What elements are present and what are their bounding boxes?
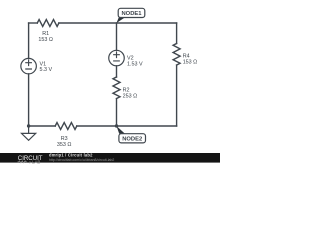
svg-text:153 Ω: 153 Ω xyxy=(38,37,53,43)
svg-text:R1: R1 xyxy=(42,31,49,37)
svg-text:1.53 V: 1.53 V xyxy=(127,62,143,68)
wire middle vertical upper xyxy=(116,23,118,50)
wire left vertical lower xyxy=(28,74,30,126)
wire bottom from ground junction to R3 xyxy=(29,125,56,127)
svg-text:dmrip1 / Circuit lab2: dmrip1 / Circuit lab2 xyxy=(49,152,93,157)
svg-text:http://circuitlab.com/c/u4bban: http://circuitlab.com/c/u4bban8/circuit-… xyxy=(49,158,114,162)
svg-text:▸LAB: ▸LAB xyxy=(30,159,41,164)
wire left vertical upper xyxy=(28,23,30,58)
footer logo zigzag xyxy=(18,161,28,163)
resistor R2 xyxy=(113,77,120,99)
voltage source V2 xyxy=(109,50,125,66)
wire right vertical upper xyxy=(176,23,178,44)
node junction dot NODE2 xyxy=(115,124,118,127)
ground xyxy=(22,126,36,140)
resistor R3 xyxy=(55,123,77,130)
wire bottom from R3 to right corner xyxy=(77,125,177,127)
footer bar xyxy=(0,153,220,163)
svg-text:253 Ω: 253 Ω xyxy=(123,94,138,100)
node NODE2 pointer xyxy=(117,126,126,134)
wire top-left lead xyxy=(29,22,38,24)
wire from R2 to bottom xyxy=(116,99,118,126)
voltage source V1 xyxy=(21,58,36,74)
svg-text:353 Ω: 353 Ω xyxy=(57,142,72,148)
wire right vertical lower xyxy=(176,65,178,126)
wire between V2 and R2 xyxy=(116,66,118,77)
node NODE1 pointer xyxy=(117,17,126,23)
svg-text:5.3 V: 5.3 V xyxy=(40,67,53,73)
resistor R1 xyxy=(37,20,59,27)
node NODE1 box xyxy=(118,8,145,17)
svg-text:R3: R3 xyxy=(61,136,68,142)
wire top from R1 to right corner xyxy=(59,22,177,24)
svg-text:R2: R2 xyxy=(123,88,130,94)
resistor R4 xyxy=(173,44,180,66)
svg-text:NODE1: NODE1 xyxy=(122,11,143,17)
node junction dot ground xyxy=(27,124,30,127)
node NODE2 box xyxy=(119,134,146,143)
svg-text:NODE2: NODE2 xyxy=(122,137,142,143)
svg-text:153 Ω: 153 Ω xyxy=(183,59,198,65)
